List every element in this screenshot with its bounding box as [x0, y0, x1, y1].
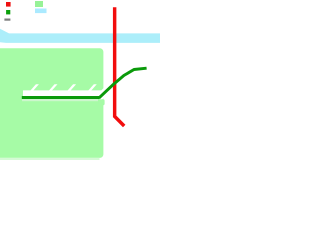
gray bar marker top-left [4, 19, 10, 21]
pale halo strip below railway line [22, 99, 98, 101]
park faded bottom strip [0, 158, 100, 160]
dark green railway line (horizontal across park) [22, 96, 100, 99]
park bulge right of junction [98, 99, 104, 105]
railway tick 1 [28, 84, 39, 93]
light green block top-right [35, 1, 43, 7]
green square marker top-left [6, 10, 10, 14]
light blue block top-right [35, 9, 47, 14]
river (light blue band, diagonal inlet top-left) [0, 29, 160, 43]
red square marker top-left [6, 2, 11, 7]
railway white casing band [23, 90, 105, 96]
white casing along green diagonal at junction [99, 86, 111, 98]
railway tick 3 [66, 84, 77, 93]
red line (vertical with bend at bottom) [115, 7, 125, 126]
park (large light green rounded area) [0, 48, 103, 158]
railway tick 2 [47, 84, 58, 93]
railway tick 4 [86, 84, 97, 93]
dark green line: diagonal from junction, bending to horizontal segment [99, 68, 147, 98]
